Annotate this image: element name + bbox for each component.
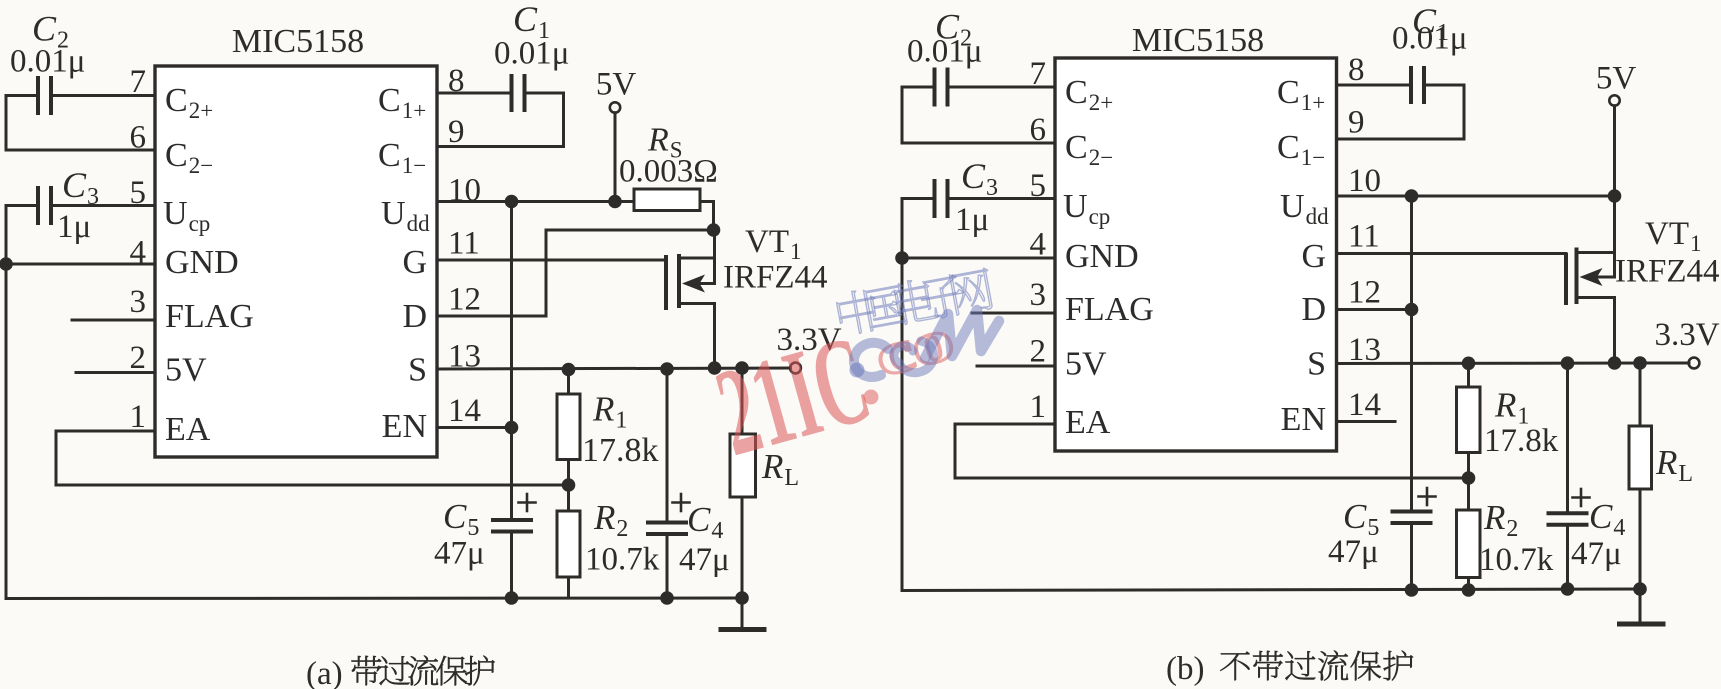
svg-text:0.01μ: 0.01μ bbox=[1392, 21, 1467, 57]
svg-text:GND: GND bbox=[1065, 238, 1139, 275]
svg-text:(a): (a) bbox=[306, 656, 343, 689]
svg-text:MIC5158: MIC5158 bbox=[232, 23, 364, 60]
svg-text:8: 8 bbox=[448, 63, 465, 99]
svg-text:C4: C4 bbox=[1589, 497, 1625, 541]
svg-text:3: 3 bbox=[1030, 277, 1047, 313]
svg-text:11: 11 bbox=[448, 226, 480, 262]
svg-text:(b): (b) bbox=[1166, 651, 1204, 687]
svg-text:0.01μ: 0.01μ bbox=[907, 34, 982, 70]
svg-text:0.01μ: 0.01μ bbox=[494, 36, 569, 72]
svg-text:3.3V: 3.3V bbox=[1654, 317, 1719, 353]
svg-text:1: 1 bbox=[1030, 389, 1047, 425]
svg-text:MIC5158: MIC5158 bbox=[1132, 22, 1264, 59]
svg-text:8: 8 bbox=[1348, 52, 1365, 88]
svg-text:G: G bbox=[1301, 238, 1326, 275]
svg-text:13: 13 bbox=[448, 339, 481, 375]
svg-text:IRFZ44: IRFZ44 bbox=[723, 260, 828, 296]
svg-text:C3: C3 bbox=[62, 165, 99, 210]
svg-text:4: 4 bbox=[1030, 227, 1047, 263]
svg-text:2: 2 bbox=[1030, 334, 1047, 370]
svg-text:3: 3 bbox=[130, 284, 147, 320]
svg-text:13: 13 bbox=[1348, 332, 1381, 368]
svg-text:VT1: VT1 bbox=[1645, 216, 1702, 256]
svg-text:7: 7 bbox=[1030, 56, 1047, 92]
svg-text:C3: C3 bbox=[961, 156, 998, 201]
svg-text:0.01μ: 0.01μ bbox=[10, 44, 85, 80]
svg-text:12: 12 bbox=[448, 282, 481, 318]
svg-text:5: 5 bbox=[130, 175, 147, 211]
svg-text:5V: 5V bbox=[1596, 61, 1637, 97]
svg-text:10: 10 bbox=[448, 173, 481, 209]
svg-text:47μ: 47μ bbox=[1328, 534, 1379, 570]
svg-text:4: 4 bbox=[130, 235, 147, 271]
svg-text:G: G bbox=[402, 244, 427, 281]
svg-text:47μ: 47μ bbox=[679, 542, 730, 578]
svg-text:9: 9 bbox=[448, 114, 465, 150]
svg-text:6: 6 bbox=[1030, 112, 1047, 148]
svg-text:S: S bbox=[408, 352, 427, 389]
svg-text:14: 14 bbox=[1348, 387, 1381, 423]
svg-text:1μ: 1μ bbox=[57, 209, 91, 245]
svg-text:5V: 5V bbox=[1065, 346, 1107, 383]
svg-text:10.7k: 10.7k bbox=[585, 542, 660, 578]
svg-text:D: D bbox=[1301, 291, 1326, 328]
svg-text:R2: R2 bbox=[593, 498, 628, 542]
svg-text:17.8k: 17.8k bbox=[1484, 423, 1559, 459]
svg-text:R2: R2 bbox=[1483, 498, 1518, 542]
svg-text:D: D bbox=[402, 298, 427, 335]
svg-text:VT1: VT1 bbox=[745, 224, 802, 264]
svg-text:2: 2 bbox=[130, 340, 147, 376]
svg-text:47μ: 47μ bbox=[1571, 536, 1622, 572]
svg-text:1: 1 bbox=[130, 399, 147, 435]
svg-text:17.8k: 17.8k bbox=[582, 432, 659, 469]
svg-text:11: 11 bbox=[1348, 219, 1380, 255]
svg-text:FLAG: FLAG bbox=[1065, 291, 1154, 328]
svg-text:14: 14 bbox=[448, 393, 481, 429]
svg-text:EN: EN bbox=[382, 408, 427, 445]
svg-text:47μ: 47μ bbox=[434, 536, 485, 572]
svg-text:EA: EA bbox=[165, 411, 211, 448]
svg-text:10: 10 bbox=[1348, 163, 1381, 199]
svg-text:IRFZ44: IRFZ44 bbox=[1615, 254, 1720, 290]
svg-text:12: 12 bbox=[1348, 275, 1381, 311]
svg-text:10.7k: 10.7k bbox=[1479, 542, 1554, 578]
svg-text:R1: R1 bbox=[592, 390, 627, 434]
svg-text:1μ: 1μ bbox=[955, 202, 989, 238]
svg-text:EA: EA bbox=[1065, 404, 1111, 441]
svg-text:S: S bbox=[1307, 346, 1326, 383]
svg-text:6: 6 bbox=[130, 120, 147, 156]
svg-text:5: 5 bbox=[1030, 168, 1047, 204]
svg-text:9: 9 bbox=[1348, 105, 1365, 141]
svg-text:C5: C5 bbox=[443, 497, 479, 541]
svg-text:FLAG: FLAG bbox=[165, 298, 254, 335]
svg-text:RL: RL bbox=[1655, 443, 1693, 487]
svg-text:5V: 5V bbox=[596, 67, 637, 103]
svg-text:0.003Ω: 0.003Ω bbox=[619, 154, 718, 190]
svg-text:C4: C4 bbox=[687, 500, 723, 544]
svg-text:EN: EN bbox=[1281, 401, 1326, 438]
svg-text:5V: 5V bbox=[165, 352, 207, 389]
svg-text:GND: GND bbox=[165, 244, 239, 281]
svg-text:7: 7 bbox=[130, 64, 147, 100]
